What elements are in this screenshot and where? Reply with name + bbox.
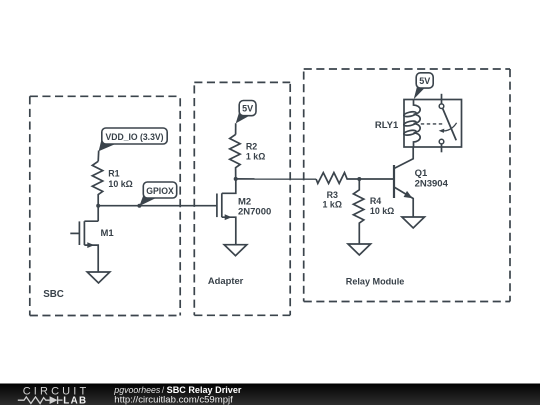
svg-text:10 kΩ: 10 kΩ [370,206,394,216]
svg-text:1 kΩ: 1 kΩ [323,199,342,209]
ground under M1 [87,272,110,283]
label R2 value [246,142,265,162]
label R4 value [370,196,394,216]
transistor M1 [70,206,98,272]
wire VDD_IO flag to R1 top [97,151,100,162]
net flag GPIOX [139,182,176,206]
svg-text:5V: 5V [419,76,430,86]
ground under Q1 [402,217,425,228]
label M2 [238,197,271,218]
label Q1 [415,168,449,190]
net flag 5V (relay) [414,73,434,100]
svg-text:1 kΩ: 1 kΩ [246,151,265,161]
ground under R4 [348,244,371,255]
Relay Module box [304,69,510,302]
Adapter box [194,82,290,315]
wire R3 to Q1 base [359,178,394,180]
svg-text:2N3904: 2N3904 [415,179,449,190]
wire M2 drain to R3 [236,178,316,180]
svg-text:SBC: SBC [43,289,64,300]
svg-text:5V: 5V [242,104,253,114]
svg-text:R2: R2 [246,142,257,152]
resistor R2 [230,134,240,179]
label R3 value [323,190,342,209]
svg-text:http://circuitlab.com/c59mpjf: http://circuitlab.com/c59mpjf [114,395,233,405]
svg-text:10 kΩ: 10 kΩ [108,179,132,189]
svg-text:M1: M1 [101,228,115,239]
node M1 drain junction [96,204,100,208]
logo resistor zigzag [18,397,50,404]
relay RLY1 [403,94,461,153]
label R1 value [108,169,133,189]
svg-text:Q1: Q1 [415,168,428,179]
svg-text:Adapter: Adapter [208,275,244,286]
svg-text:RLY1: RLY1 [375,120,399,131]
node R3/R4/Q1 junction [357,177,361,181]
net flag 5V (adapter) [236,101,256,124]
svg-text:R4: R4 [370,196,381,206]
transistor Q1 [394,147,413,217]
resistor R1 [92,161,102,205]
logo diode [50,396,63,404]
svg-text:VDD_IO (3.3V): VDD_IO (3.3V) [106,131,164,142]
svg-text:GPIOX: GPIOX [146,185,174,196]
footer bar [0,384,540,405]
SBC box [30,96,180,315]
ground under M2 [224,245,247,256]
svg-text:LAB: LAB [63,395,87,405]
resistor R3 [316,173,359,184]
svg-text:R1: R1 [108,169,119,179]
svg-text:Relay Module: Relay Module [346,276,405,287]
wire GPIOX net (M1 drain to M2 gate) [98,205,217,207]
wire 5V flag to R2 top [235,123,237,134]
svg-text:2N7000: 2N7000 [238,207,271,218]
node GPIOX tap [137,204,141,208]
net flag VDD_IO (3.3V) [99,128,168,151]
resistor R4 [353,179,363,244]
transistor M2 [217,179,236,245]
node M2 drain junction [234,177,238,181]
